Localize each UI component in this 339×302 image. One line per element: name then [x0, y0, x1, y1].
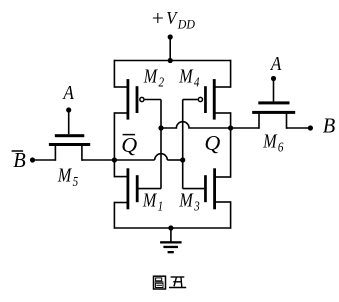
- svg-text:A: A: [269, 52, 282, 75]
- svg-text:Q: Q: [121, 133, 137, 157]
- svg-text:B: B: [323, 116, 336, 138]
- svg-text:Q: Q: [204, 131, 220, 155]
- svg-text:1: 1: [158, 199, 164, 214]
- svg-text:M: M: [262, 130, 277, 152]
- svg-text:M: M: [179, 189, 194, 211]
- svg-text:5: 5: [73, 174, 79, 189]
- svg-text:M: M: [178, 65, 193, 87]
- svg-text:6: 6: [278, 140, 284, 155]
- svg-text:B: B: [13, 150, 26, 172]
- svg-text:3: 3: [193, 199, 199, 214]
- svg-text:4: 4: [194, 75, 200, 90]
- svg-text:M: M: [143, 65, 158, 87]
- svg-text:2: 2: [158, 75, 164, 90]
- svg-text:A: A: [62, 82, 75, 105]
- svg-text:M: M: [142, 189, 157, 211]
- svg-text:M: M: [57, 164, 72, 186]
- svg-text:+: +: [152, 6, 164, 30]
- svg-text:DD: DD: [177, 17, 195, 32]
